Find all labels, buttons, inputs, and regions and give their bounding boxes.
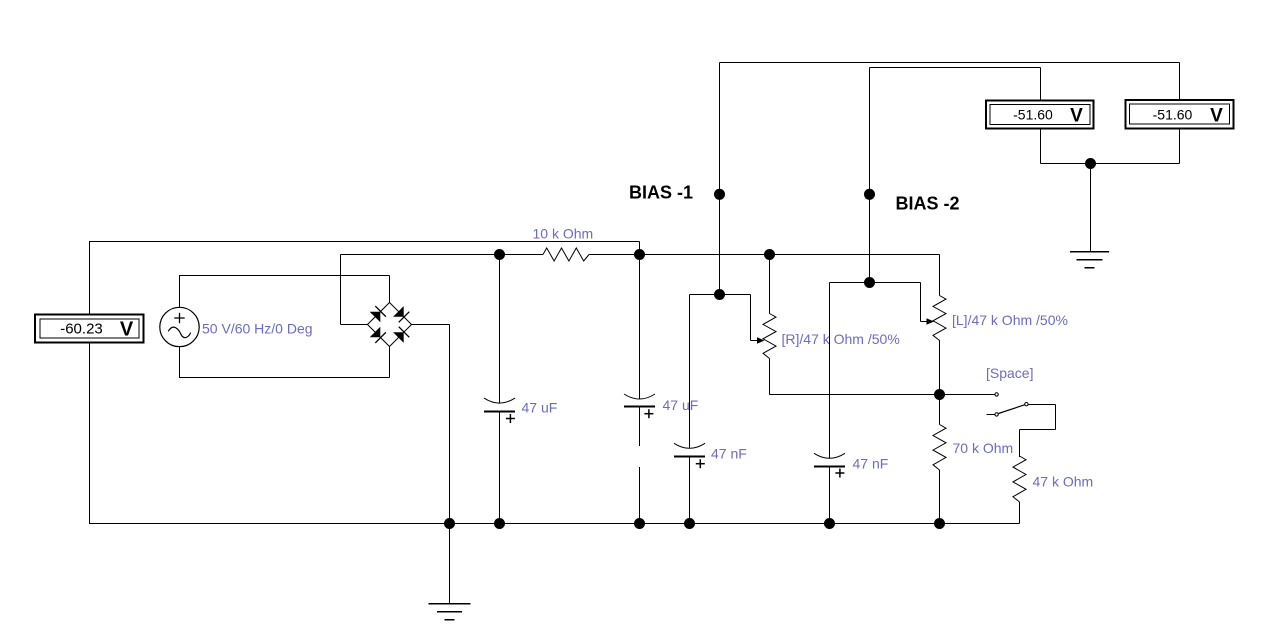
wire bridge right corner to ground rail (412, 324, 450, 326)
bridge rectifier D1 diamond outline (368, 303, 412, 347)
potentiometer R wiper arrow (757, 337, 765, 344)
node junction dot ground rail at C2 (634, 518, 645, 529)
potentiometer R 47k zigzag (763, 314, 776, 359)
wire branch down to C3 (689, 295, 691, 449)
svg-text:47 uF: 47 uF (663, 397, 699, 413)
wire BIAS-1 lower horizontal branch (690, 294, 751, 296)
wire to top-right ground (1090, 164, 1092, 252)
wire top-left horizontal net from voltmeter XMM1 to node at 10k resistor right (89, 241, 640, 243)
node junction dot ground rail at C4 (824, 518, 835, 529)
node junction dot ground rail at C3 (684, 518, 695, 529)
node junction dot switch junction (934, 389, 945, 400)
switch S1 right contact circle (1025, 403, 1028, 406)
svg-text:V: V (1070, 106, 1083, 127)
svg-text:BIAS -1: BIAS -1 (629, 183, 693, 203)
svg-text:V: V (120, 319, 134, 341)
node junction dot BIAS-1 lower (714, 289, 725, 300)
wire R potentiometer bottom lead (769, 359, 771, 395)
node junction dot ground rail at 70k (934, 518, 945, 529)
wire AC source minus terminal down (179, 347, 181, 378)
wire R potentiometer top lead (769, 255, 771, 314)
resistor R3 47 k Ohm zigzag (1013, 456, 1026, 502)
wire BIAS-2 vertical net (869, 68, 871, 283)
svg-text:[R]/47 k Ohm /50%: [R]/47 k Ohm /50% (782, 331, 900, 347)
svg-text:47 nF: 47 nF (711, 446, 747, 462)
bridge diode bottom-right (393, 327, 409, 343)
svg-text:[Space]: [Space] (986, 365, 1033, 381)
capacitor C3 47 nF (674, 295, 705, 524)
switch S1 lower throw contact circle (995, 413, 998, 416)
node junction dot ground rail at bridge (444, 518, 455, 529)
bridge diode top-right (393, 306, 409, 322)
wire branch to R potentiometer wiper (750, 295, 752, 341)
wire voltmeter XMM2 bottom lead (1040, 130, 1042, 164)
svg-text:50 V/60 Hz/0 Deg: 50 V/60 Hz/0 Deg (202, 321, 313, 337)
wire L potentiometer bottom lead (939, 341, 941, 395)
node junction dot BIAS-2 lower (864, 277, 875, 288)
wire bottom ground rail (89, 523, 1020, 525)
wire main middle rail y=254 left part (341, 254, 544, 256)
wire main middle rail y=254 right part after resistor (589, 254, 940, 256)
node junction dot middle rail at C1 (494, 249, 505, 260)
node junction dot ground rail at C1 (494, 518, 505, 529)
svg-text:-60.23: -60.23 (60, 321, 103, 338)
capacitor C4 47 nF (814, 283, 845, 524)
wire voltmeter XMM1 bottom lead (89, 344, 91, 524)
resistor R2 70 k Ohm zigzag (933, 425, 946, 471)
wire BIAS-2 lower horizontal branch (830, 282, 921, 284)
switch S1 arm (998, 405, 1024, 414)
svg-text:-51.60: -51.60 (1153, 107, 1193, 123)
ground symbol bottom (429, 524, 471, 620)
wire to switch pole (940, 394, 996, 396)
AC source V1 circle (160, 307, 199, 346)
node junction dot voltmeter common (1085, 158, 1096, 169)
wire from R potentiometer bottom to switch junction (770, 394, 940, 396)
node junction dot middle rail at C2 (634, 249, 645, 260)
bridge diode top-left (370, 306, 386, 322)
ground symbol top-right (1070, 252, 1109, 268)
wire AC source plus to bridge top corner (179, 275, 390, 277)
svg-text:10 k Ohm: 10 k Ohm (533, 226, 594, 242)
switch S1 lower throw stub (986, 414, 994, 416)
wire branch to L potentiometer wiper (920, 283, 922, 322)
capacitor C2 47 uF (624, 255, 655, 447)
svg-text:70 k Ohm: 70 k Ohm (953, 440, 1014, 456)
wire BIAS-1 top run to right voltmeter XMM3 (720, 62, 1180, 64)
bridge diode bottom-left (370, 327, 386, 343)
svg-text:47 k Ohm: 47 k Ohm (1033, 474, 1094, 490)
svg-text:V: V (1210, 106, 1223, 127)
voltmeter XMM2 -51.60 V display (986, 101, 1094, 129)
svg-text:-51.60: -51.60 (1013, 107, 1053, 123)
wire L potentiometer top lead from middle rail (939, 255, 941, 296)
voltmeter XMM1 -60.23 V display (35, 315, 144, 343)
node junction dot at middle rail above R potentiometer (764, 249, 775, 260)
AC source sine wave (168, 327, 190, 338)
wire switch to 47k resistor (1029, 404, 1056, 406)
voltmeter XMM3 -51.60 V display (1126, 100, 1234, 129)
potentiometer L 47k zigzag (933, 296, 946, 341)
wire AC source plus terminal up (179, 276, 181, 309)
resistor R1 10 k Ohm zigzag (543, 248, 589, 261)
wire voltmeter XMM1 top lead (89, 242, 91, 315)
wire C2 lower lead after gap to ground rail (639, 467, 641, 524)
svg-text:BIAS -2: BIAS -2 (896, 194, 960, 214)
switch S1 pole contact circle (995, 393, 998, 396)
wire from middle rail down to bridge left corner (340, 255, 342, 325)
node BIAS-1 dot (714, 189, 725, 200)
wire AC source minus to bridge bottom corner (179, 377, 390, 379)
wire voltmeter bottom common run (1041, 163, 1180, 165)
AC source plus sign (174, 317, 184, 319)
svg-text:47 uF: 47 uF (522, 400, 558, 416)
node BIAS-2 dot (864, 189, 875, 200)
wire voltmeter XMM3 bottom lead (1179, 130, 1181, 164)
wire 70k resistor top lead (939, 395, 941, 425)
wire BIAS-1 vertical net (719, 63, 721, 295)
wire 70k resistor bottom lead (939, 470, 941, 524)
wire branch down to C4 (829, 283, 831, 454)
wire vertical drop into junction at resistor right (639, 242, 641, 255)
wire 47k resistor bottom lead to ground rail (1019, 502, 1021, 524)
potentiometer L wiper arrow (927, 318, 935, 325)
svg-text:47 nF: 47 nF (853, 456, 889, 472)
capacitor C1 47 uF (484, 255, 515, 524)
wire BIAS-2 top run to voltmeter XMM2 (870, 67, 1041, 69)
svg-text:[L]/47 k Ohm /50%: [L]/47 k Ohm /50% (952, 312, 1068, 328)
